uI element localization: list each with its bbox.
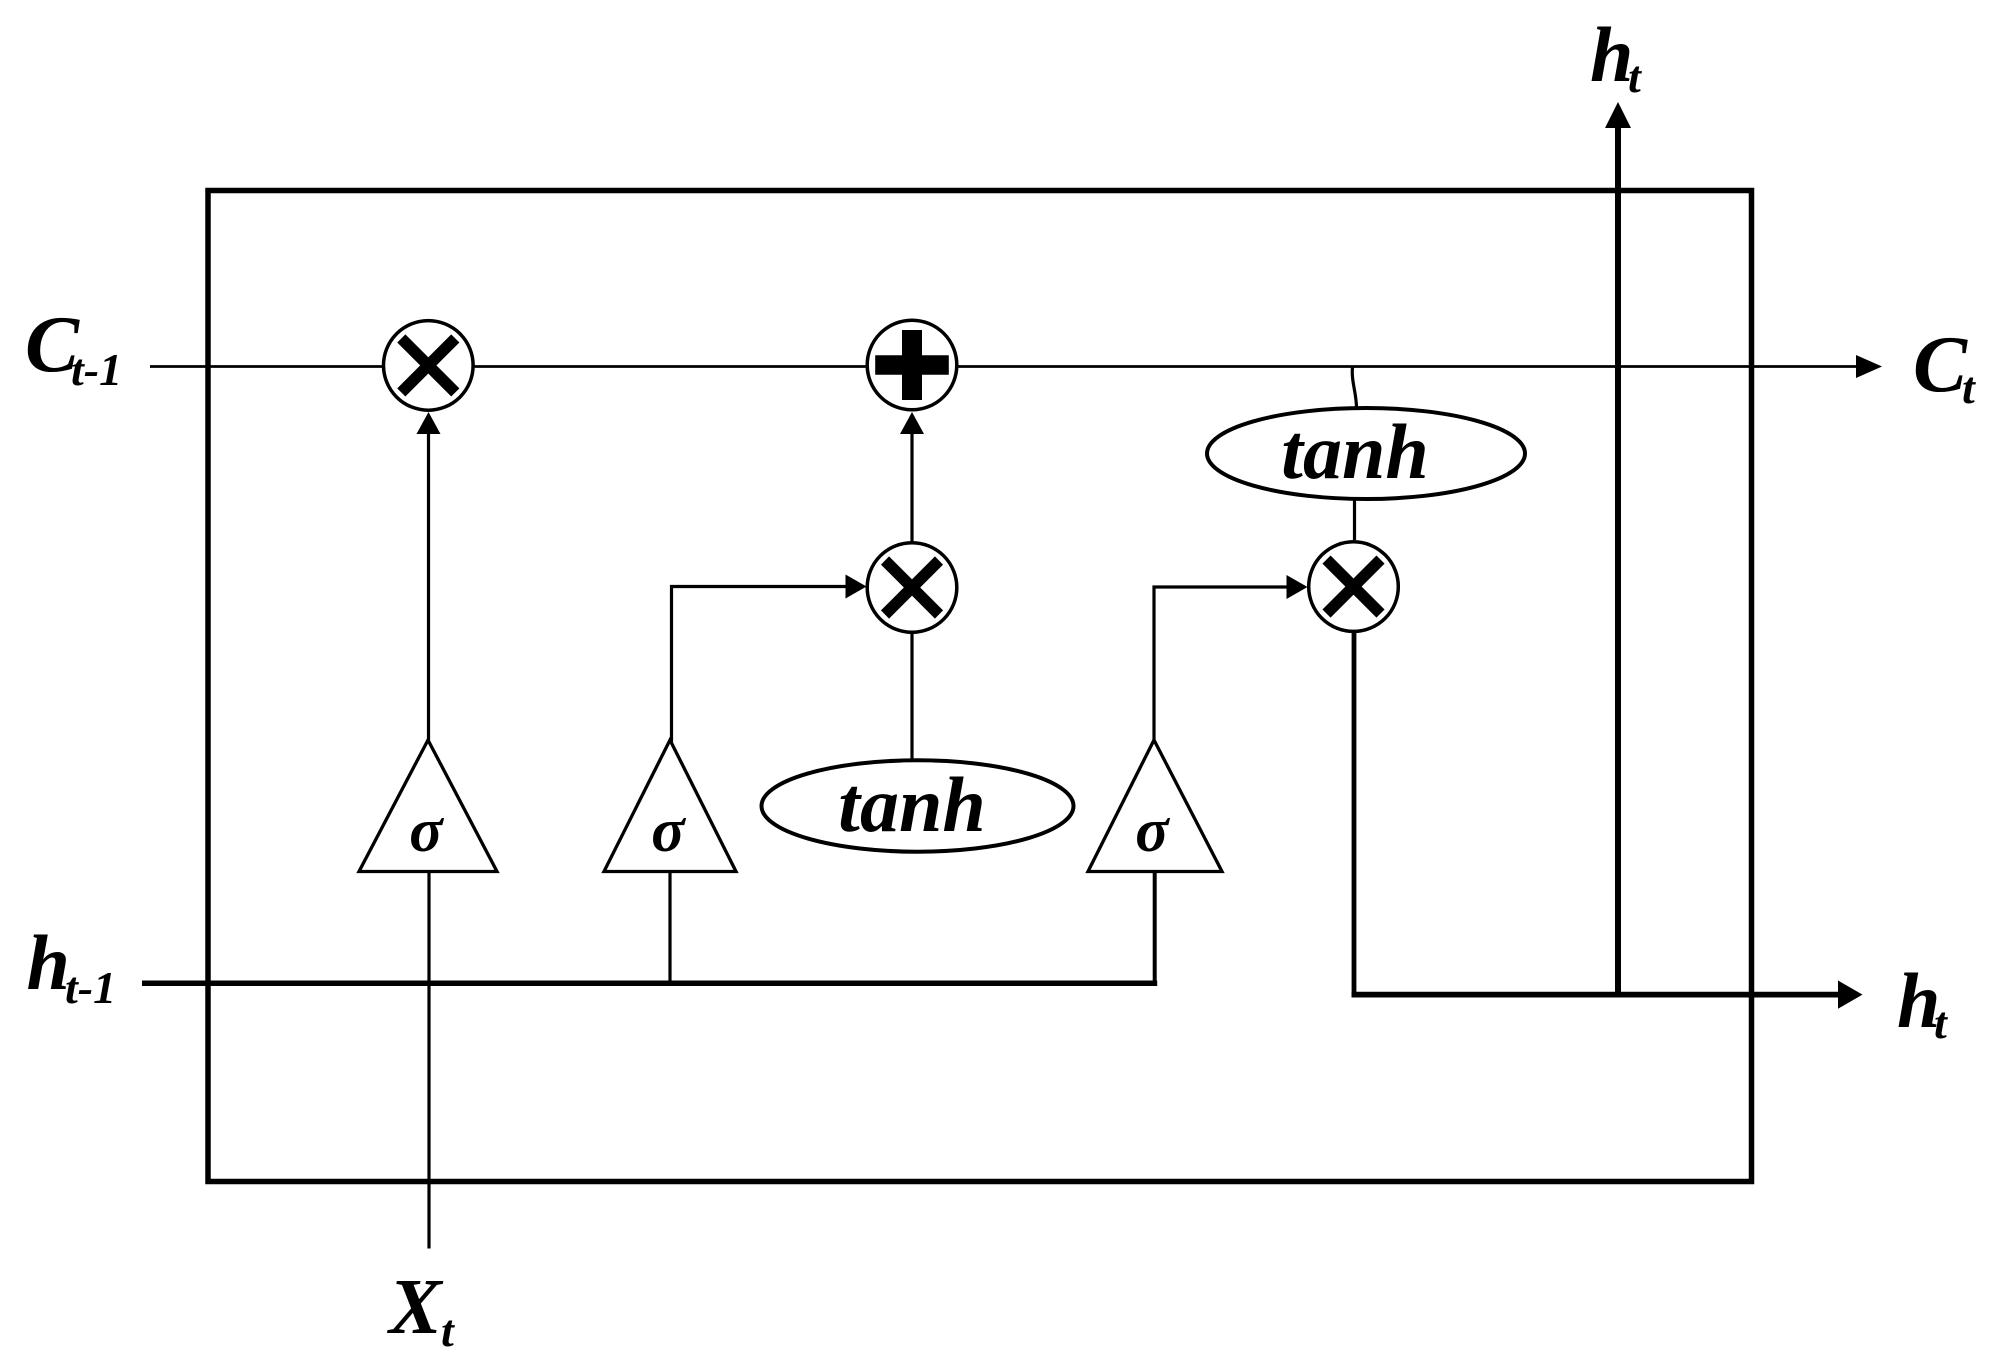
svg-text:σ: σ	[651, 797, 686, 865]
multiply gate M2	[867, 543, 957, 633]
wire: h_t output horizontal	[1352, 992, 1840, 998]
arrowhead into multiply gate M1	[417, 412, 441, 434]
wire: tanh2 down to multiply gate M3	[1353, 498, 1356, 541]
wire: h_t output vertical to top	[1615, 127, 1621, 992]
multiply gate M1	[384, 321, 474, 411]
label X_t	[387, 1264, 455, 1356]
tanh2 ellipse (upper right)	[1207, 408, 1525, 499]
label h_(t-1)	[27, 919, 117, 1013]
sigma gate 3 (output gate)	[1088, 740, 1222, 872]
svg-text:σ: σ	[409, 797, 444, 865]
arrowhead into add gate	[900, 412, 924, 434]
label C_(t-1)	[25, 299, 122, 395]
wire: h_(t-1) horizontal line	[142, 981, 1157, 987]
multiply gate M3	[1309, 542, 1399, 632]
svg-text:h: h	[1590, 11, 1633, 98]
wire: sigma3 output elbow to multiply gate M3	[1154, 587, 1289, 742]
arrowhead C_t output	[1856, 355, 1882, 378]
svg-text:tanh: tanh	[838, 761, 985, 848]
arrowhead into multiply gate M2	[846, 575, 867, 599]
add gate	[867, 320, 957, 410]
wire: X_t input vertical	[427, 872, 430, 1249]
svg-text:C: C	[1913, 319, 1968, 409]
label h_t (right)	[1897, 957, 1948, 1048]
svg-text:σ: σ	[1135, 797, 1170, 865]
label h_t (top)	[1590, 11, 1642, 102]
arrowhead h_t right output	[1838, 981, 1863, 1009]
svg-text:t: t	[1628, 51, 1642, 102]
svg-text:t-1: t-1	[71, 344, 122, 395]
arrowhead into multiply gate M3	[1287, 575, 1308, 599]
wire: multiply gate M2 down to tanh1	[910, 631, 913, 762]
wire: multiply gate M3 output down	[1352, 631, 1357, 992]
sigma gate 2 (input gate)	[604, 740, 736, 872]
svg-text:t: t	[1934, 997, 1948, 1048]
svg-text:X: X	[387, 1264, 444, 1351]
tanh1 ellipse (middle)	[762, 760, 1074, 851]
wire: branch from C line down to tanh2	[1352, 367, 1356, 410]
wire: sigma2 input from h line	[668, 872, 671, 983]
wire: C_(t-1) horizontal cell-state line	[150, 365, 1857, 368]
label C_t (right)	[1913, 319, 1976, 413]
wire: sigma2 output elbow to multiply gate M2	[672, 587, 849, 743]
svg-text:t: t	[1962, 362, 1976, 413]
svg-text:t-1: t-1	[65, 962, 116, 1013]
wire: riser from h line up into sigma3 base	[1153, 872, 1157, 987]
LSTM cell boundary box	[208, 191, 1752, 1182]
sigma gate 1 (forget gate)	[359, 740, 497, 872]
svg-text:h: h	[27, 919, 70, 1006]
wire: sigma1 output up to multiply gate M1	[427, 433, 430, 742]
arrowhead h_t top output	[1605, 102, 1631, 128]
wire: multiply gate M2 up to add gate	[910, 433, 913, 543]
svg-text:t: t	[441, 1305, 455, 1356]
svg-text:tanh: tanh	[1281, 408, 1428, 495]
